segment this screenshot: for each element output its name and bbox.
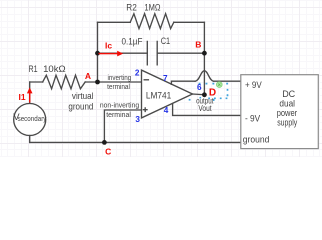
wire hop over supply lead xyxy=(195,71,214,82)
svg-text:LM741: LM741 xyxy=(146,90,171,100)
capacitor C1 plates xyxy=(147,41,157,64)
svg-text:B: B xyxy=(195,40,201,50)
wire pin 7 lead to +9V xyxy=(171,81,240,84)
selection handle (green) xyxy=(217,82,223,88)
wire top feedback branch xyxy=(98,21,205,23)
svg-text:7: 7 xyxy=(163,74,168,83)
wire bottom ground rail xyxy=(30,141,241,143)
junction dot left cap branch xyxy=(95,51,100,56)
svg-text:ground: ground xyxy=(68,102,93,112)
svg-text:terminal: terminal xyxy=(107,82,130,91)
svg-text:2: 2 xyxy=(135,69,140,78)
svg-text:6: 6 xyxy=(197,83,202,92)
junction node A dot xyxy=(95,80,100,85)
svg-text:R1: R1 xyxy=(29,64,38,75)
junction node B dot xyxy=(202,51,207,56)
svg-text:0.1µF: 0.1µF xyxy=(122,37,143,48)
svg-text:I1: I1 xyxy=(19,92,26,102)
svg-text:R2: R2 xyxy=(126,3,137,14)
junction node C dot xyxy=(102,140,107,145)
svg-text:10kΩ: 10kΩ xyxy=(43,64,66,75)
svg-text:4: 4 xyxy=(164,106,169,115)
wire source top lead xyxy=(29,82,31,104)
svg-text:virtual: virtual xyxy=(72,91,94,101)
svg-text:3: 3 xyxy=(135,115,140,124)
svg-text:+ 9V: + 9V xyxy=(245,80,262,90)
svg-text:1MΩ: 1MΩ xyxy=(144,3,160,14)
selection box around node D (dashed highlight) xyxy=(199,84,229,99)
op-amp plus sign xyxy=(143,108,147,112)
wire right vertical (B riser through hop) xyxy=(203,22,205,95)
wire capacitor branch left xyxy=(98,52,148,54)
svg-text:A: A xyxy=(85,71,91,81)
junction node D output dot xyxy=(202,92,207,97)
source V1 Vsecondary xyxy=(14,104,46,136)
svg-text:terminal: terminal xyxy=(106,110,131,119)
svg-text:dual: dual xyxy=(279,99,295,109)
wire pin 4 lead to -9V xyxy=(173,104,241,116)
svg-text:ground: ground xyxy=(243,135,270,145)
wire output lead xyxy=(193,93,205,96)
wire R1 input to node A to op-amp pin 2 xyxy=(30,81,142,83)
wire pin3 branch (C riser and lead) xyxy=(104,110,141,142)
op-amp minus sign xyxy=(144,79,148,81)
svg-text:C: C xyxy=(105,147,111,157)
svg-text:- 9V: - 9V xyxy=(245,113,260,123)
resistor R1 xyxy=(43,75,85,89)
op-amp U1 LM741 triangle xyxy=(142,70,193,118)
selection stray dashes near output label xyxy=(189,97,215,101)
current arrow Ic xyxy=(99,51,124,57)
svg-text:supply: supply xyxy=(277,118,297,128)
svg-text:secondary: secondary xyxy=(18,114,47,123)
wire source bottom lead xyxy=(29,136,31,143)
svg-text:non-inverting: non-inverting xyxy=(100,100,139,109)
current arrow I1 xyxy=(27,87,33,102)
resistor R2 xyxy=(130,14,174,29)
svg-text:C1: C1 xyxy=(161,36,170,47)
svg-text:Ic: Ic xyxy=(105,40,112,50)
wire capacitor branch right xyxy=(157,52,204,54)
svg-text:Vout: Vout xyxy=(198,104,212,113)
wire left vertical (node A riser) xyxy=(97,22,99,82)
DC dual power supply box xyxy=(241,75,318,149)
svg-text:inverting: inverting xyxy=(108,73,132,82)
svg-text:D: D xyxy=(209,87,216,98)
